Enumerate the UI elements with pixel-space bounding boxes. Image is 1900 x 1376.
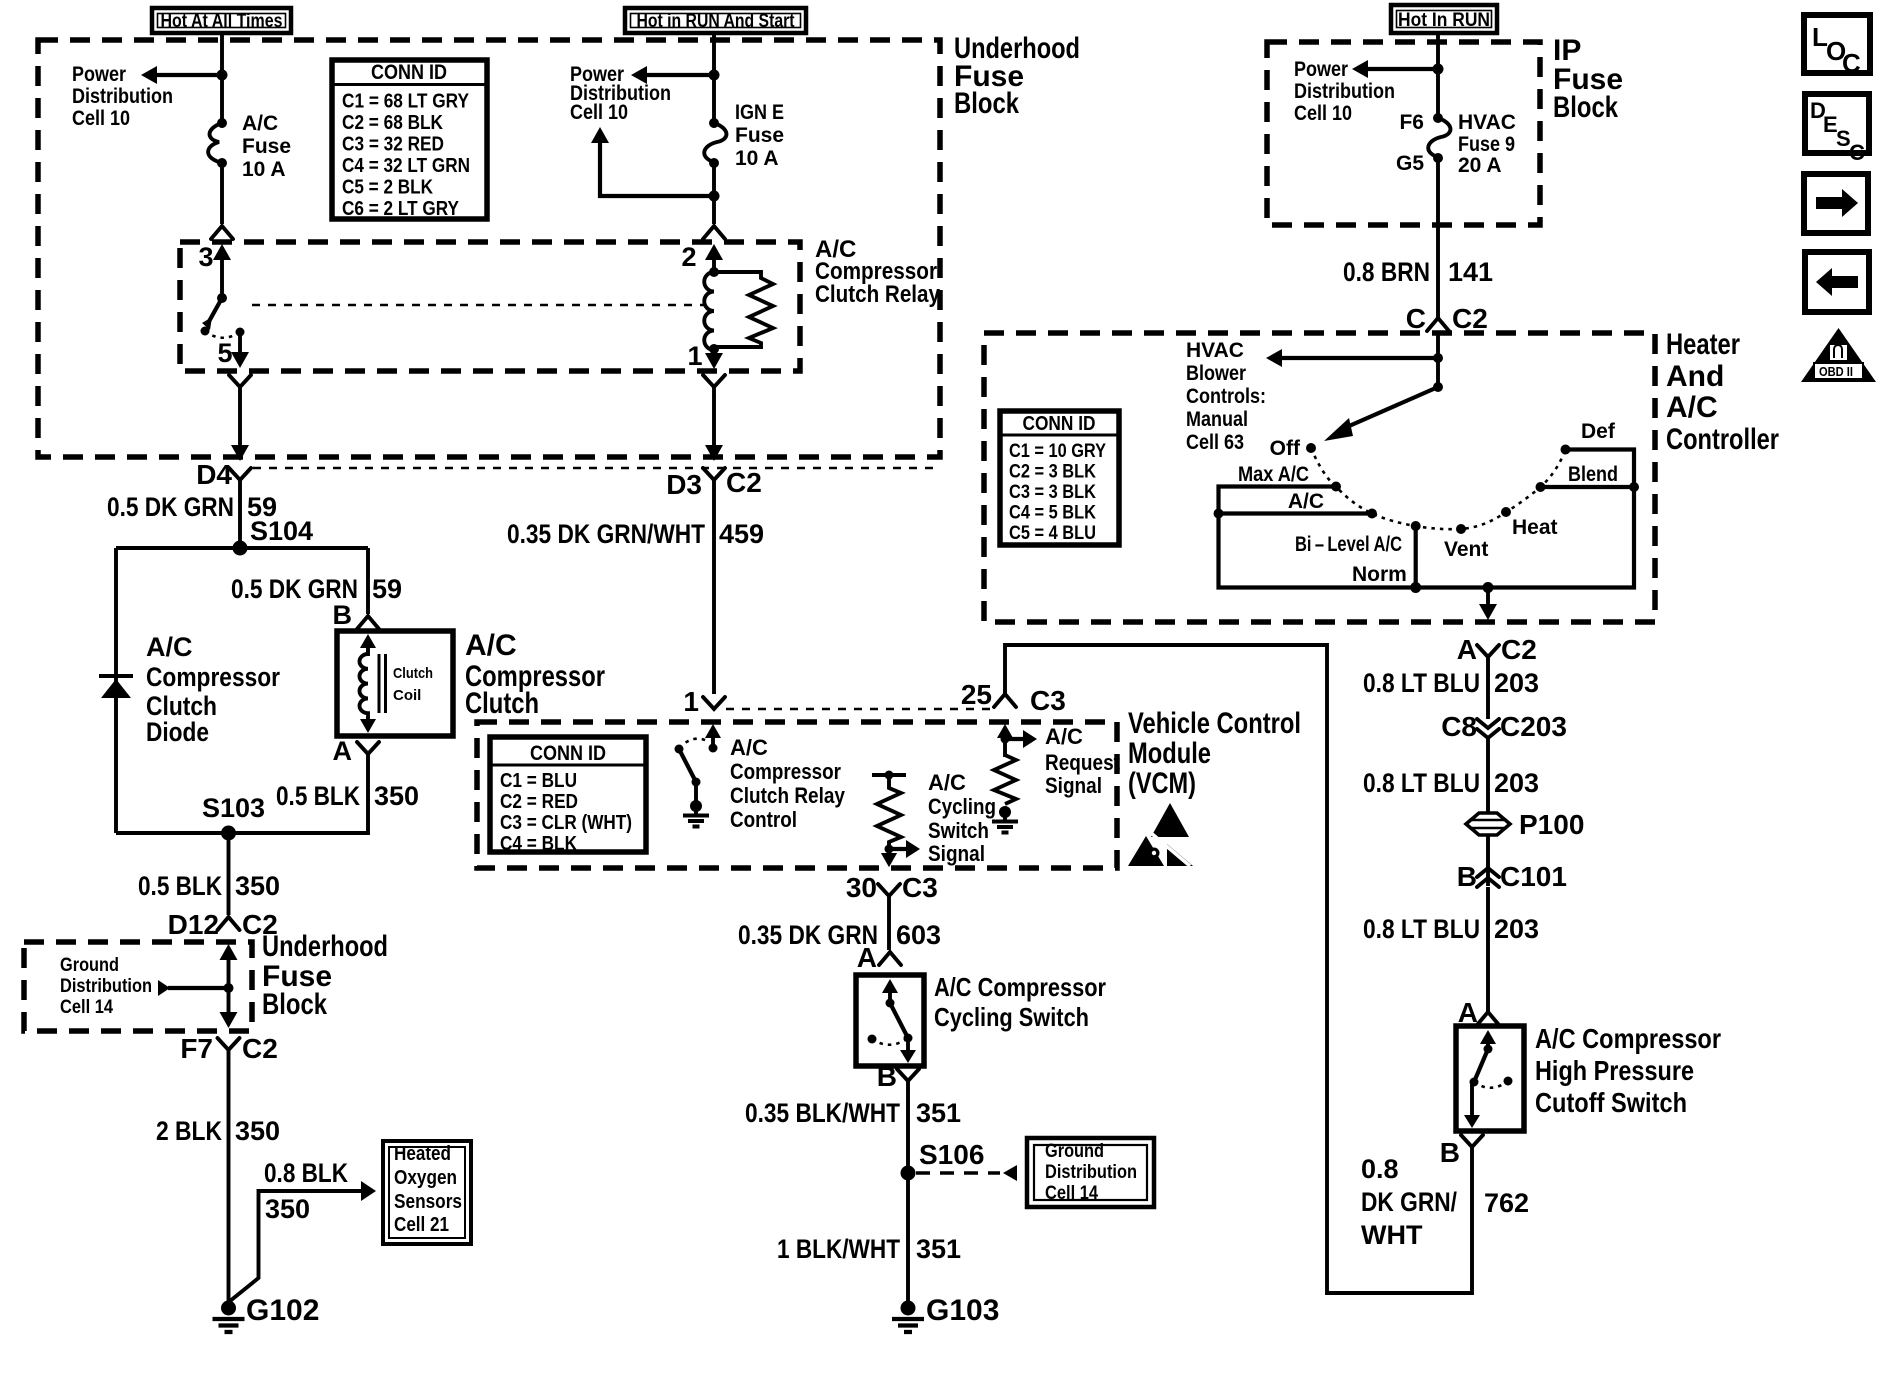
connector C2 face dashed line	[253, 467, 938, 470]
svg-text:C2: C2	[726, 467, 762, 498]
svg-text:Coil: Coil	[393, 687, 421, 704]
wire arrow from Ground Distribution text	[158, 980, 229, 996]
wire B to S106 to G103	[906, 1089, 910, 1302]
Ground Distribution Cell 14 dashed box (left)	[24, 942, 252, 1031]
label wire 0.8 LT BLU 203 (3)	[1363, 914, 1539, 944]
wire D3 to VCM pin 1	[712, 488, 716, 694]
svg-text:Module: Module	[1128, 737, 1211, 770]
svg-text:A/C: A/C	[1288, 490, 1324, 513]
text: Ground Distribution Cell 14 (left)	[60, 955, 152, 1018]
label: A/C Cycling Switch Signal	[928, 770, 996, 866]
wire arrow to Power Distribution Cell 10	[141, 66, 222, 84]
svg-text:Bi – Level A/C: Bi – Level A/C	[1295, 533, 1402, 556]
svg-text:10 A: 10 A	[242, 158, 286, 181]
terminal A of cycling switch	[857, 942, 901, 973]
svg-text:0.8 BLK: 0.8 BLK	[264, 1158, 348, 1188]
svg-text:A/C: A/C	[1045, 724, 1083, 749]
splice S103	[202, 793, 265, 841]
node: junction to Power Distribution (right)	[1433, 64, 1444, 75]
heater CONN ID table	[1000, 411, 1119, 545]
wire C8/C203 to P100	[1486, 738, 1490, 813]
text: HVAC Blower Controls: Manual Cell 63	[1186, 339, 1266, 454]
svg-text:203: 203	[1494, 768, 1539, 798]
svg-text:Cell 10: Cell 10	[72, 107, 130, 130]
relay internal dashed link	[252, 304, 706, 307]
position dot Def	[1561, 420, 1616, 455]
svg-text:Hot In RUN: Hot In RUN	[1398, 10, 1490, 31]
wire relay pin5 to D4	[231, 395, 249, 461]
svg-text:0.8 LT BLU: 0.8 LT BLU	[1363, 768, 1480, 798]
fork at VCM pin 25	[961, 679, 1066, 716]
relay resistor	[714, 272, 773, 347]
svg-text:IGN E: IGN E	[735, 101, 784, 124]
svg-text:B: B	[1457, 861, 1477, 892]
Heater And A/C Controller dashed box	[984, 333, 1655, 622]
label: A/C Compressor Clutch Relay Control	[730, 735, 846, 832]
wire fuse to C connector	[1436, 158, 1440, 318]
position dot Vent	[1444, 524, 1488, 561]
label wire 0.5 DK GRN 59 (upper)	[107, 492, 277, 522]
svg-text:Distribution: Distribution	[1294, 80, 1395, 103]
svg-text:And: And	[1666, 360, 1724, 393]
svg-text:0.8 LT BLU: 0.8 LT BLU	[1363, 914, 1480, 944]
clutch coil box	[337, 631, 453, 736]
svg-text:Manual: Manual	[1186, 408, 1248, 431]
svg-text:762: 762	[1484, 1188, 1529, 1218]
svg-text:C: C	[1842, 48, 1861, 78]
svg-text:D4: D4	[196, 459, 232, 490]
svg-text:C2: C2	[1501, 634, 1537, 665]
connector fork above relay pin 3	[211, 226, 233, 239]
svg-text:HVAC: HVAC	[1186, 339, 1244, 362]
svg-text:459: 459	[719, 519, 764, 549]
svg-text:DK GRN/: DK GRN/	[1361, 1187, 1457, 1217]
wire through ground distribution box	[220, 944, 238, 1028]
svg-text:CONN ID: CONN ID	[371, 61, 447, 84]
svg-text:C5 = 4 BLU: C5 = 4 BLU	[1009, 523, 1096, 544]
label: IGN E Fuse 10 A	[735, 101, 784, 170]
connector 30 C3	[846, 872, 938, 904]
svg-text:Signal: Signal	[1045, 773, 1102, 798]
label box: Hot In RUN	[1391, 5, 1497, 33]
label wire 0.8 BLK 350	[264, 1158, 348, 1224]
ESD symbol	[1128, 803, 1193, 866]
svg-text:Clutch Relay: Clutch Relay	[815, 281, 941, 308]
title: Vehicle Control Module (VCM)	[1128, 707, 1301, 800]
connector C C2	[1406, 303, 1488, 334]
wire arrow to HVAC Blower Controls	[1266, 349, 1438, 367]
svg-text:WHT: WHT	[1361, 1220, 1423, 1250]
label wire 0.8 DK GRN/WHT 762	[1361, 1154, 1529, 1250]
ground G103	[892, 1294, 999, 1332]
wire S104 horizontal	[116, 546, 368, 550]
pressure switch box	[1456, 1026, 1524, 1131]
svg-text:C3: C3	[1030, 685, 1066, 716]
wire S104 down to clutch coil B	[366, 548, 370, 614]
svg-text:2 BLK: 2 BLK	[156, 1116, 222, 1146]
pass-through P100	[1466, 809, 1584, 840]
label wire 0.8 BRN 141	[1343, 257, 1493, 287]
dashed link to Ground Distribution Cell 14	[916, 1165, 1017, 1181]
svg-text:A: A	[1457, 634, 1477, 665]
svg-text:OBD II: OBD II	[1819, 364, 1853, 379]
svg-text:Vehicle Control: Vehicle Control	[1128, 707, 1301, 740]
svg-text:D12: D12	[168, 909, 219, 940]
Ground Distribution Cell 14 box (right)	[1027, 1138, 1154, 1207]
svg-text:C3: C3	[902, 872, 938, 903]
label box: Hot At All Times	[152, 8, 291, 33]
svg-text:C: C	[1406, 303, 1426, 334]
position dot Blend	[1536, 463, 1619, 492]
svg-text:C203: C203	[1500, 711, 1567, 742]
svg-text:0.8: 0.8	[1361, 1154, 1399, 1184]
svg-text:B: B	[1440, 1137, 1460, 1168]
rotary wiper arm	[1324, 382, 1443, 441]
label: A/C Compressor Clutch	[465, 629, 605, 720]
svg-text:Cell 14: Cell 14	[60, 997, 113, 1018]
svg-text:Hot At All Times: Hot At All Times	[161, 11, 283, 32]
VCM cycling switch signal pullup	[872, 771, 906, 868]
svg-text:Clutch: Clutch	[393, 665, 433, 682]
svg-text:Switch: Switch	[928, 818, 989, 843]
cycling switch SW box	[856, 975, 924, 1066]
svg-text:C4 = BLK: C4 = BLK	[500, 833, 577, 855]
svg-text:Block: Block	[1553, 91, 1618, 124]
fuse: HVAC Fuse 9 20 A	[1428, 113, 1450, 163]
label wire 0.5 DK GRN 59 (lower)	[231, 574, 402, 604]
svg-text:Fuse 9: Fuse 9	[1458, 133, 1515, 156]
svg-text:203: 203	[1494, 668, 1539, 698]
svg-text:350: 350	[235, 1116, 280, 1146]
svg-text:S103: S103	[202, 793, 265, 823]
svg-text:Controller: Controller	[1666, 423, 1779, 456]
cycling switch signal arrow	[889, 840, 920, 858]
relay pin 2 terminal	[681, 242, 723, 277]
splice S104	[233, 516, 314, 556]
svg-text:G102: G102	[246, 1294, 319, 1327]
svg-text:Norm: Norm	[1352, 563, 1407, 586]
svg-text:1 BLK/WHT: 1 BLK/WHT	[777, 1234, 900, 1264]
label: A/C Fuse 10 A	[242, 112, 291, 181]
wire controller output down	[1479, 588, 1497, 621]
svg-text:C2 = 68 BLK: C2 = 68 BLK	[342, 112, 443, 134]
wire P100 to B/C101	[1486, 835, 1490, 886]
svg-text:C: C	[1849, 140, 1865, 165]
wire VCM pin30 exit	[881, 853, 897, 867]
svg-text:Ground: Ground	[1045, 1141, 1104, 1162]
svg-text:C6 = 2 LT GRY: C6 = 2 LT GRY	[342, 198, 460, 220]
node: HVAC blower branch	[1433, 353, 1443, 363]
svg-text:C4 = 32 LT GRN: C4 = 32 LT GRN	[342, 155, 470, 177]
wire D4 to S104	[238, 488, 242, 548]
icon forward arrow	[1804, 174, 1868, 233]
wire diode branch down	[114, 548, 118, 833]
svg-text:0.5 BLK: 0.5 BLK	[276, 781, 360, 811]
svg-text:C3 = 32 RED: C3 = 32 RED	[342, 134, 444, 156]
svg-text:350: 350	[374, 781, 419, 811]
svg-text:C2 = 3 BLK: C2 = 3 BLK	[1009, 462, 1096, 483]
svg-text:Cell 63: Cell 63	[1186, 431, 1244, 454]
svg-text:A/C Compressor: A/C Compressor	[934, 972, 1106, 1002]
label wire 0.5 BLK 350 (A branch)	[276, 781, 419, 811]
svg-text:C2: C2	[1452, 303, 1488, 334]
node: L-branch junction	[709, 191, 720, 202]
fork below relay pin 1	[703, 375, 725, 395]
svg-text:Compressor: Compressor	[730, 759, 841, 784]
position dot A/C	[1288, 490, 1377, 519]
splice S106	[901, 1139, 985, 1181]
svg-text:Cycling: Cycling	[928, 794, 996, 819]
svg-text:0.35 DK GRN/WHT: 0.35 DK GRN/WHT	[507, 519, 705, 549]
svg-text:C1 = BLU: C1 = BLU	[500, 770, 577, 792]
svg-text:S104: S104	[250, 516, 313, 546]
svg-text:G103: G103	[926, 1294, 999, 1327]
VCM clutch relay control driver	[705, 724, 721, 753]
svg-text:0.8 BRN: 0.8 BRN	[1343, 257, 1430, 287]
svg-text:Fuse: Fuse	[735, 124, 784, 147]
svg-text:351: 351	[916, 1234, 961, 1264]
relay switch dotted travel arc	[205, 331, 240, 338]
svg-text:Distribution: Distribution	[1045, 1162, 1137, 1183]
svg-text:5: 5	[217, 338, 232, 368]
fuse: IGN E Fuse 10 A	[704, 118, 726, 168]
svg-text:Diode: Diode	[146, 717, 209, 747]
text: Power Distribution Cell 10 (left)	[72, 63, 173, 130]
svg-text:A/C: A/C	[146, 632, 193, 662]
svg-text:B: B	[877, 1061, 897, 1092]
svg-text:Power: Power	[72, 63, 126, 86]
wire A to C8/C203	[1486, 665, 1490, 719]
svg-text:Cell 21: Cell 21	[394, 1214, 449, 1236]
svg-text:Oxygen: Oxygen	[394, 1167, 457, 1189]
relay coil	[704, 272, 714, 350]
label: Underhood Fuse Block (lower)	[262, 930, 388, 1021]
svg-text:Blend: Blend	[1568, 463, 1618, 486]
Underhood Fuse Block dashed box	[38, 40, 940, 457]
svg-text:0.5 BLK: 0.5 BLK	[138, 871, 222, 901]
driver dotted arc	[679, 739, 709, 748]
Heated Oxygen Sensors Cell 21 box	[383, 1141, 471, 1244]
wire F7 down to G102	[227, 1058, 231, 1302]
pressure switch internals	[1464, 1030, 1513, 1128]
node: junction to Power Distribution (middle)	[709, 70, 720, 81]
svg-text:C1 = 10 GRY: C1 = 10 GRY	[1009, 441, 1106, 462]
svg-text:F6: F6	[1399, 111, 1424, 134]
svg-text:Vent: Vent	[1444, 538, 1488, 561]
svg-text:Compressor: Compressor	[146, 662, 280, 692]
svg-text:Controls:: Controls:	[1186, 385, 1266, 408]
svg-text:A/C: A/C	[242, 112, 278, 135]
label wire 0.35 DK GRN/WHT 459	[507, 519, 764, 549]
connector B C101	[1457, 861, 1567, 892]
svg-text:A/C: A/C	[730, 735, 768, 760]
wire from Hot in RUN down to IGN E fuse	[712, 33, 716, 123]
svg-text:P100: P100	[1519, 809, 1584, 840]
svg-text:S106: S106	[919, 1139, 984, 1170]
diode CR: A/C Compressor Clutch Diode	[99, 676, 133, 698]
svg-text:0.35 BLK/WHT: 0.35 BLK/WHT	[745, 1098, 900, 1128]
svg-text:C1 = 68 LT GRY: C1 = 68 LT GRY	[342, 91, 470, 113]
wire from Hot At All Times down to A/C Fuse	[220, 33, 224, 123]
relay switch arm	[201, 298, 223, 336]
svg-text:Blower: Blower	[1186, 362, 1246, 385]
node: ground distribution junction	[224, 983, 234, 993]
terminal A of pressure switch	[1458, 997, 1499, 1028]
connector D12 C2	[168, 909, 278, 940]
svg-text:59: 59	[372, 574, 402, 604]
wire A down to S103	[116, 762, 368, 833]
svg-text:F7: F7	[180, 1033, 213, 1064]
wire 30 to cycling switch A	[887, 904, 891, 950]
wire B/C101 to pressure switch	[1486, 887, 1490, 1012]
connector F7 C2	[180, 1033, 277, 1064]
fork at VCM pin 1	[683, 686, 725, 717]
request signal resistor to ground	[992, 755, 1018, 833]
svg-text:30: 30	[846, 872, 877, 903]
node: controller output junction	[1483, 582, 1494, 593]
svg-text:Request: Request	[1045, 750, 1121, 775]
svg-text:603: 603	[896, 920, 941, 950]
wire relay pin1 to D3	[705, 395, 723, 461]
svg-text:Underhood: Underhood	[262, 930, 388, 963]
label: A/C Request Signal	[1045, 724, 1121, 798]
fuse F: A/C Fuse 10 A	[208, 118, 227, 168]
label wire 0.35 BLK/WHT 351	[745, 1098, 961, 1128]
position dot Max A/C	[1238, 463, 1341, 492]
svg-text:Cell 10: Cell 10	[1294, 102, 1352, 125]
wire fuse to relay pin 3	[220, 163, 224, 224]
title: IP Fuse Block	[1553, 34, 1623, 124]
svg-text:203: 203	[1494, 914, 1539, 944]
relay K: A/C Compressor Clutch Relay dashed box	[180, 242, 800, 371]
terminal B of cycling switch	[877, 1061, 919, 1092]
label box: Hot in RUN And Start	[625, 8, 806, 33]
svg-text:C3 = CLR (WHT): C3 = CLR (WHT)	[500, 812, 632, 834]
svg-text:10 A: 10 A	[735, 147, 779, 170]
icon OBD II triangle	[1801, 328, 1876, 382]
label: A/C Compressor High Pressure Cutoff Switch	[1535, 1023, 1721, 1118]
svg-text:A/C: A/C	[1666, 391, 1718, 424]
svg-text:Hot in RUN And Start: Hot in RUN And Start	[637, 11, 796, 32]
svg-text:Cutoff Switch: Cutoff Switch	[1535, 1087, 1687, 1118]
selector dotted arc	[1311, 448, 1566, 529]
svg-text:Fuse: Fuse	[242, 135, 291, 158]
svg-text:141: 141	[1448, 257, 1493, 287]
svg-text:Control: Control	[730, 807, 797, 832]
driver switch arm to ground	[675, 745, 710, 827]
svg-text:A: A	[857, 942, 877, 973]
label: A/C Compressor Clutch Diode	[146, 632, 280, 747]
svg-text:High Pressure: High Pressure	[1535, 1055, 1694, 1086]
svg-text:A/C: A/C	[465, 629, 517, 662]
icon LOC	[1804, 15, 1870, 78]
terminal B of clutch coil	[333, 600, 380, 630]
svg-text:C5 = 2 BLK: C5 = 2 BLK	[342, 177, 433, 199]
VCM dashed box	[477, 722, 1117, 868]
svg-text:Cycling Switch: Cycling Switch	[934, 1002, 1089, 1032]
svg-text:C101: C101	[1500, 861, 1567, 892]
svg-text:G5: G5	[1396, 152, 1424, 175]
relay pin 3 terminal	[198, 242, 231, 303]
connector A C2 (controller)	[1457, 634, 1537, 665]
svg-text:Cell 10: Cell 10	[570, 101, 628, 124]
clutch coil internals	[360, 634, 434, 733]
svg-text:C4 = 5 BLK: C4 = 5 BLK	[1009, 503, 1096, 524]
svg-text:Ground: Ground	[60, 955, 119, 976]
svg-text:(VCM): (VCM)	[1128, 767, 1196, 800]
svg-text:A: A	[333, 736, 353, 766]
svg-text:3: 3	[198, 242, 213, 272]
labels F6 G5 HVAC Fuse 9 20 A	[1396, 111, 1516, 177]
svg-text:25: 25	[961, 679, 992, 710]
label: A/C Compressor Cycling Switch	[934, 972, 1106, 1032]
svg-text:Off: Off	[1270, 437, 1301, 460]
svg-text:D3: D3	[666, 469, 702, 500]
svg-text:B: B	[333, 600, 353, 630]
terminal B of pressure switch	[1440, 1135, 1483, 1168]
connector D4 C2	[196, 459, 251, 490]
relay pin 5 terminal	[217, 328, 249, 369]
position dot Off	[1270, 437, 1316, 460]
wire S103 down to D12	[227, 833, 231, 915]
svg-text:Heat: Heat	[1512, 516, 1558, 539]
terminal A of clutch coil	[333, 736, 380, 766]
svg-text:350: 350	[235, 871, 280, 901]
ground G102	[213, 1294, 320, 1332]
svg-text:CONN ID: CONN ID	[530, 742, 606, 765]
VCM request signal input	[997, 724, 1013, 757]
fork below relay pin 5	[229, 375, 251, 395]
svg-text:C3 = 3 BLK: C3 = 3 BLK	[1009, 482, 1096, 503]
label wire 0.8 LT BLU 203 (1)	[1363, 668, 1539, 698]
svg-text:Def: Def	[1581, 420, 1616, 443]
svg-text:CONN ID: CONN ID	[1023, 413, 1096, 435]
wire Hot In RUN down to fuse	[1436, 33, 1440, 118]
connector fork above relay pin 2	[703, 226, 725, 239]
svg-text:Heated: Heated	[394, 1143, 451, 1165]
connector C8 C203	[1441, 711, 1567, 742]
svg-text:1: 1	[687, 341, 702, 371]
svg-text:Block: Block	[262, 988, 327, 1021]
svg-text:20 A: 20 A	[1458, 154, 1502, 177]
svg-text:Cell 14: Cell 14	[1045, 1183, 1098, 1204]
relay pin 1 terminal	[687, 341, 723, 371]
svg-text:Distribution: Distribution	[60, 976, 152, 997]
label wire 0.8 LT BLU 203 (2)	[1363, 768, 1539, 798]
wire fuse to relay pin 2 with branch	[712, 163, 716, 224]
wire C2 into controller	[1436, 331, 1440, 387]
VCM pin25 link dashed line	[726, 708, 991, 711]
wire arrow to Power Distribution Cell 10 (right)	[1352, 60, 1438, 78]
svg-text:C2 = RED: C2 = RED	[500, 791, 578, 813]
IP Fuse Block dashed box	[1267, 42, 1540, 225]
svg-text:C8: C8	[1441, 711, 1477, 742]
label wire 0.5 BLK 350 (S103 down)	[138, 871, 280, 901]
wire L-branch up arrow	[591, 127, 714, 196]
position dot Bi-Level	[1295, 521, 1421, 556]
svg-text:351: 351	[916, 1098, 961, 1128]
connector D3 C2	[666, 467, 762, 500]
svg-text:C2: C2	[242, 1033, 278, 1064]
svg-text:Power: Power	[1294, 58, 1348, 81]
text Norm	[1352, 563, 1407, 586]
text: Power Distribution Cell 10 (right)	[1294, 58, 1395, 125]
title: Underhood Fuse Block	[954, 32, 1080, 120]
svg-text:HVAC: HVAC	[1458, 111, 1516, 134]
label wire 0.35 DK GRN 603	[738, 920, 941, 950]
svg-text:A/C: A/C	[928, 770, 966, 795]
label wire 2 BLK 350	[156, 1116, 280, 1146]
